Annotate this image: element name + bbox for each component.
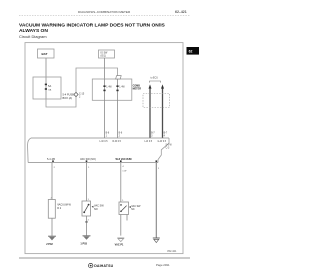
svg-text:1: 1 [88, 167, 90, 169]
svg-text:1.4W: 1.4W [119, 87, 125, 89]
svg-text:VAC SW (NO): VAC SW (NO) [80, 158, 96, 161]
svg-text:V62-421: V62-421 [167, 250, 177, 253]
svg-text:3: 3 [151, 136, 153, 138]
svg-text:4: 4 [164, 136, 166, 138]
svg-text:DIAGNOSIS–COMBINATION METER: DIAGNOSIS–COMBINATION METER [78, 10, 131, 14]
svg-text:R-W 0.5: R-W 0.5 [113, 141, 122, 143]
svg-text:1: 1 [106, 136, 108, 138]
svg-text:DAIHATSU: DAIHATSU [94, 264, 113, 268]
svg-text:G-W 0.5: G-W 0.5 [158, 141, 167, 143]
svg-text:W-8 VACUUM: W-8 VACUUM [116, 158, 132, 161]
svg-text:62–421: 62–421 [175, 10, 187, 14]
svg-text:NC: NC [131, 208, 135, 211]
svg-text:VACUUM WARNING INDICATOR LAMP: VACUUM WARNING INDICATOR LAMP DOES NOT T… [19, 23, 166, 29]
svg-text:2: 2 [88, 219, 90, 221]
svg-text:2 P02: 2 P02 [46, 243, 53, 246]
svg-text:2: 2 [54, 167, 56, 169]
svg-text:1.4W: 1.4W [106, 87, 112, 89]
svg-text:C-3: C-3 [166, 148, 170, 150]
svg-text:B-7: B-7 [164, 133, 168, 135]
svg-text:IG SW: IG SW [101, 53, 109, 55]
svg-text:METER: METER [133, 88, 142, 91]
svg-text:2: 2 [119, 136, 121, 138]
svg-text:(IG1): (IG1) [101, 56, 106, 58]
svg-text:5-6 W: 5-6 W [166, 145, 173, 147]
svg-text:1 P03: 1 P03 [80, 243, 87, 246]
svg-text:Page 2491: Page 2491 [156, 263, 170, 267]
svg-text:1: 1 [158, 168, 160, 170]
svg-text:GA: GA [48, 88, 52, 91]
svg-text:BAT: BAT [42, 52, 48, 56]
svg-text:2: 2 [79, 95, 81, 98]
svg-text:1: 1 [122, 200, 124, 202]
svg-text:B-6: B-6 [106, 133, 110, 135]
svg-text:4: 4 [122, 166, 124, 168]
svg-text:Circuit Diagram: Circuit Diagram [19, 34, 47, 39]
svg-text:NO: NO [94, 208, 98, 211]
svg-text:5-4 J/B: 5-4 J/B [47, 158, 55, 161]
svg-text:VAC P1: VAC P1 [115, 243, 124, 246]
svg-text:5A: 5A [48, 84, 51, 88]
svg-text:L-R 0.5: L-R 0.5 [145, 141, 153, 143]
svg-text:B-6: B-6 [119, 133, 123, 135]
svg-text:1 W: 1 W [122, 170, 127, 172]
svg-text:B-7: B-7 [151, 133, 155, 135]
svg-text:62: 62 [189, 50, 193, 54]
svg-text:L-W 0.5: L-W 0.5 [100, 141, 109, 143]
svg-text:BOX (A): BOX (A) [63, 96, 73, 100]
svg-text:to ECU: to ECU [151, 77, 159, 80]
svg-text:R 2: R 2 [57, 207, 62, 210]
